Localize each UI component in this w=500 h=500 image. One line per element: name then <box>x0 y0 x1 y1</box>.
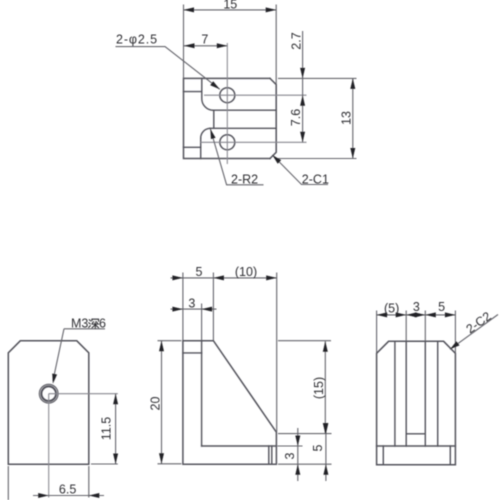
svg-text:M3: M3 <box>71 317 88 331</box>
svg-text:15: 15 <box>223 0 237 12</box>
svg-text:2-C1: 2-C1 <box>302 172 329 186</box>
svg-text:13: 13 <box>340 111 354 125</box>
svg-text:2-φ2.5: 2-φ2.5 <box>116 33 158 47</box>
svg-text:5: 5 <box>438 300 445 314</box>
svg-text:2-R2: 2-R2 <box>231 172 258 186</box>
svg-text:(10): (10) <box>235 265 257 279</box>
svg-text:2.7: 2.7 <box>290 32 304 49</box>
svg-text:3: 3 <box>188 296 195 310</box>
svg-text:6: 6 <box>99 317 106 331</box>
svg-text:(15): (15) <box>312 377 326 399</box>
svg-text:20: 20 <box>149 397 163 411</box>
svg-text:7.6: 7.6 <box>289 109 303 126</box>
svg-text:5: 5 <box>311 444 325 451</box>
svg-text:3: 3 <box>413 300 420 314</box>
svg-text:5: 5 <box>196 265 203 279</box>
svg-text:3: 3 <box>283 452 297 459</box>
svg-text:(5): (5) <box>384 302 399 316</box>
svg-text:7: 7 <box>201 33 208 47</box>
svg-text:11.5: 11.5 <box>100 417 114 440</box>
svg-text:6.5: 6.5 <box>59 483 76 497</box>
